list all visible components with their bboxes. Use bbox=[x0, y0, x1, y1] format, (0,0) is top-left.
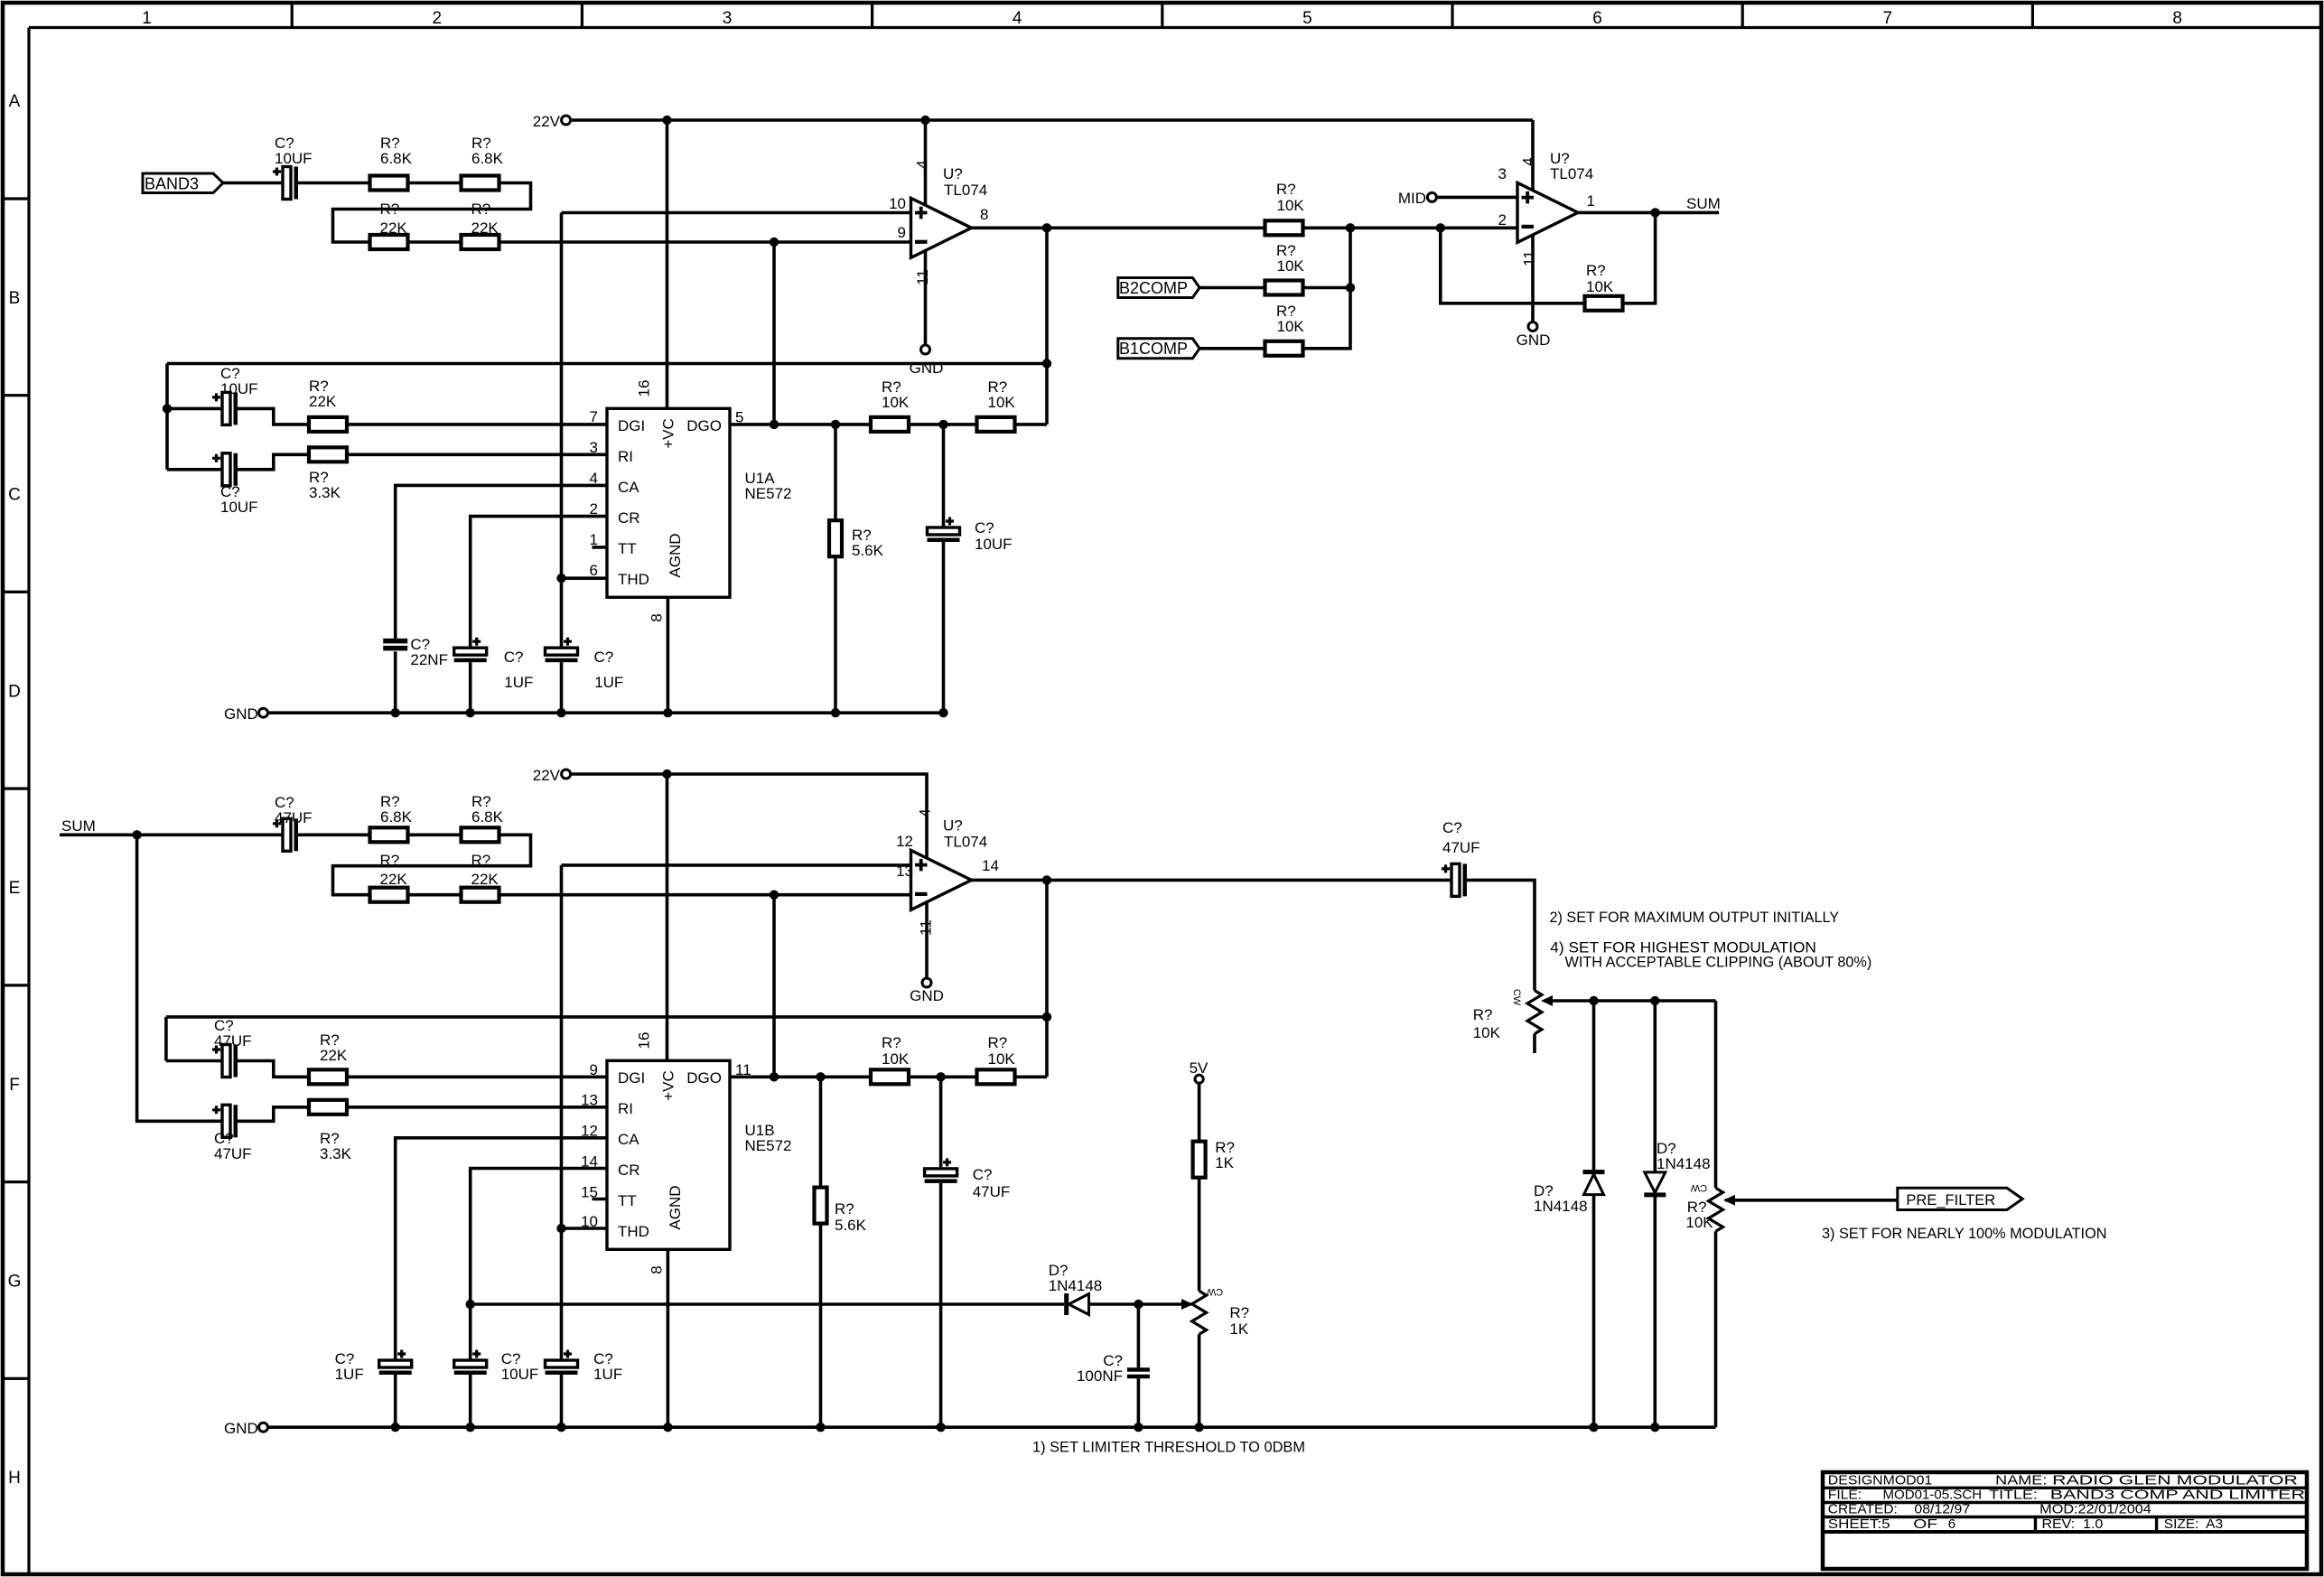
wire 10UF cap bottom to ground rail bbox=[942, 542, 946, 713]
resistor R? 22K bottom first bbox=[370, 888, 408, 902]
wire 47UF decouple bottom to ground rail bbox=[939, 1183, 943, 1427]
wire 47UF decouple top bbox=[939, 1077, 943, 1169]
svg-text:6: 6 bbox=[1592, 9, 1602, 28]
wire C 10UF to bottom ground rail bbox=[469, 1375, 472, 1427]
junction ground threshold pot bbox=[1194, 1423, 1203, 1432]
svg-text:22V: 22V bbox=[533, 113, 561, 130]
svg-text:E: E bbox=[9, 879, 21, 898]
svg-text:NE572: NE572 bbox=[745, 485, 792, 502]
svg-text:7: 7 bbox=[590, 408, 598, 425]
svg-text:MOD:22/01/2004: MOD:22/01/2004 bbox=[2039, 1502, 2151, 1517]
svg-text:16: 16 bbox=[636, 1032, 653, 1050]
svg-text:6: 6 bbox=[1948, 1516, 1955, 1532]
svg-text:47UF: 47UF bbox=[1442, 839, 1480, 856]
svg-text:MID: MID bbox=[1398, 190, 1426, 207]
potentiometer R? 1K threshold bbox=[1192, 1291, 1207, 1334]
power terminal 22V bottom bbox=[562, 770, 571, 779]
svg-text:10K: 10K bbox=[988, 1050, 1016, 1068]
svg-text:R?: R? bbox=[1276, 181, 1296, 198]
capacitor C? 1UF bottom first bbox=[379, 1360, 412, 1367]
resistor R? 10K DGO bottom second feedback bbox=[977, 1069, 1015, 1084]
svg-text:DESIGNMOD01: DESIGNMOD01 bbox=[1828, 1473, 1933, 1488]
svg-text:1N4148: 1N4148 bbox=[1049, 1277, 1103, 1294]
wire between 6.8K resistors bbox=[408, 182, 462, 185]
svg-text:4: 4 bbox=[1013, 9, 1022, 28]
svg-text:13: 13 bbox=[581, 1092, 598, 1109]
wire R 22K to DGI pin 9 bbox=[347, 1076, 607, 1079]
svg-text:THD: THD bbox=[618, 571, 649, 588]
wire C 22NF to ground rail bbox=[394, 651, 397, 713]
svg-text:TL074: TL074 bbox=[944, 182, 987, 199]
svg-text:RADIO GLEN MODULATOR: RADIO GLEN MODULATOR bbox=[2052, 1473, 2298, 1488]
svg-text:22K: 22K bbox=[320, 1047, 348, 1064]
border column ticks bbox=[291, 2, 294, 28]
svg-text:GND: GND bbox=[224, 705, 258, 723]
svg-text:10K: 10K bbox=[882, 1050, 910, 1068]
svg-text:6.8K: 6.8K bbox=[471, 150, 504, 167]
capacitor C? 47UF upper left bbox=[222, 1045, 230, 1078]
junction 22V at op-amp1 pin 4 bbox=[920, 116, 929, 125]
svg-text:GND: GND bbox=[1517, 331, 1551, 349]
svg-text:3.3K: 3.3K bbox=[320, 1145, 352, 1162]
wire CA pin 12 to C 1UF bottom bbox=[396, 1138, 607, 1360]
wire feedback op-amp2 bbox=[1441, 228, 1585, 303]
wire CR pin 2 to C 1UF first bbox=[471, 517, 607, 649]
svg-text:CW: CW bbox=[1511, 989, 1522, 1006]
resistor R? 3.3K RI bbox=[309, 447, 347, 462]
junction DGO bottom 47UF bbox=[936, 1072, 945, 1081]
resistor R? 6.8K bottom first bbox=[370, 827, 408, 842]
wire R 3.3K to RI pin 13 bbox=[347, 1106, 607, 1109]
wire diode2 top bbox=[1654, 1001, 1657, 1172]
junction ground 5.6K bbox=[831, 708, 840, 717]
svg-text:9: 9 bbox=[590, 1061, 598, 1078]
resistor R? 22K DGI bottom bbox=[309, 1069, 347, 1084]
svg-text:8: 8 bbox=[2172, 9, 2182, 28]
wire 22K row to op-amp inverting input pin 9 bbox=[499, 240, 911, 244]
svg-text:FILE:: FILE: bbox=[1828, 1488, 1862, 1503]
svg-text:10UF: 10UF bbox=[220, 499, 258, 516]
svg-text:5.6K: 5.6K bbox=[835, 1217, 867, 1234]
wire 5.6K bottom top bbox=[819, 1077, 823, 1187]
wire horizontal y1126 bbox=[166, 1015, 1047, 1019]
capacitor C? 47UF decouple bbox=[925, 1169, 957, 1176]
svg-text:47UF: 47UF bbox=[214, 1145, 252, 1162]
capacitor C? 22NF bbox=[383, 639, 407, 644]
junction DGO 10UF bbox=[938, 420, 947, 429]
svg-text:CR: CR bbox=[618, 1162, 640, 1179]
wire between bottom 6.8K resistors bbox=[408, 833, 462, 836]
svg-text:CW: CW bbox=[1690, 1182, 1707, 1193]
wire C 1UF to bottom ground rail bbox=[394, 1375, 397, 1427]
wire C 1UF to ground rail bbox=[469, 662, 472, 713]
svg-text:U?: U? bbox=[943, 165, 963, 182]
svg-text:R?: R? bbox=[835, 1200, 854, 1218]
wire 5.6K bottom to ground rail bbox=[819, 1224, 823, 1428]
junction threshold 100NF bbox=[1134, 1300, 1143, 1309]
wire op-amp1 pin11 to GND bbox=[924, 251, 928, 346]
svg-text:10K: 10K bbox=[1277, 318, 1305, 335]
svg-text:1UF: 1UF bbox=[504, 674, 533, 691]
svg-text:6.8K: 6.8K bbox=[471, 808, 504, 826]
svg-text:DGO: DGO bbox=[686, 417, 722, 434]
svg-text:47UF: 47UF bbox=[214, 1032, 252, 1050]
svg-text:10UF: 10UF bbox=[975, 536, 1013, 553]
wire 6.8K loop to 22K row bbox=[333, 183, 531, 243]
svg-text:3: 3 bbox=[1498, 165, 1507, 182]
capacitor C? 10UF input bbox=[283, 167, 291, 200]
wire C 47UF to R 22K DGI bottom bbox=[238, 1061, 310, 1078]
junction sum node feedback op-amp2 bbox=[1436, 223, 1445, 232]
IC U1B NE572 box bbox=[607, 1060, 730, 1249]
svg-text:TL074: TL074 bbox=[944, 834, 987, 851]
svg-text:TT: TT bbox=[618, 1192, 637, 1209]
svg-text:R?: R? bbox=[1229, 1304, 1249, 1321]
wire vertical output node bottom x1159 bbox=[1045, 880, 1049, 1077]
svg-text:5V: 5V bbox=[1190, 1059, 1209, 1077]
wire to C 10UF upper bbox=[167, 407, 222, 411]
svg-text:08/12/97: 08/12/97 bbox=[1914, 1502, 1970, 1517]
svg-text:REV: 1.0: REV: 1.0 bbox=[2042, 1516, 2104, 1532]
wire +VC pin16 to 22V rail bottom bbox=[666, 774, 669, 1060]
wire C 47UF to 6.8K bbox=[298, 833, 370, 836]
resistor R? 6.8K first bbox=[370, 176, 408, 191]
svg-text:BAND3 COMP AND LIMITER: BAND3 COMP AND LIMITER bbox=[2050, 1488, 2305, 1503]
svg-text:CR: CR bbox=[618, 509, 640, 527]
svg-text:22K: 22K bbox=[380, 871, 408, 888]
svg-text:16: 16 bbox=[636, 380, 653, 397]
svg-text:C: C bbox=[8, 486, 21, 505]
junction ground diode1 bbox=[1589, 1423, 1598, 1432]
border row ticks bbox=[2, 197, 29, 200]
svg-text:PRE_FILTER: PRE_FILTER bbox=[1906, 1191, 1995, 1208]
svg-text:1N4148: 1N4148 bbox=[1657, 1155, 1711, 1172]
svg-text:9: 9 bbox=[898, 224, 906, 241]
wire +VC pin16 to 22V rail bbox=[666, 120, 669, 408]
ground terminal top rail bbox=[259, 708, 268, 717]
junction DGO 5.6K bbox=[831, 420, 840, 429]
wire vertical junction to DGO bottom bbox=[772, 895, 776, 1078]
svg-text:47UF: 47UF bbox=[973, 1183, 1011, 1200]
wire vertical output node x1159 bbox=[1045, 228, 1049, 425]
wire ground rail bottom bbox=[268, 1425, 1716, 1429]
wire output cap to level pot bbox=[1467, 880, 1535, 990]
diode D? 1N4148 threshold bbox=[1064, 1293, 1069, 1315]
svg-text:DGO: DGO bbox=[686, 1069, 722, 1087]
resistor R? 5.6K bottom bbox=[815, 1188, 827, 1224]
wire 22V rail into op-amp2 pin 4 bbox=[1531, 120, 1535, 190]
junction THD bbox=[556, 574, 565, 583]
svg-text:GND: GND bbox=[910, 987, 944, 1004]
wire CR junction to C 10UF bottom bbox=[469, 1304, 472, 1360]
wire 100NF bottom to ground rail bbox=[1137, 1378, 1141, 1427]
svg-text:2: 2 bbox=[433, 9, 443, 28]
svg-text:22K: 22K bbox=[309, 393, 337, 410]
svg-text:22K: 22K bbox=[471, 219, 499, 237]
svg-text:7: 7 bbox=[1883, 9, 1893, 28]
svg-text:3: 3 bbox=[723, 9, 733, 28]
junction at y402 bbox=[1042, 359, 1051, 368]
svg-text:SHEET:5: SHEET:5 bbox=[1828, 1516, 1890, 1532]
potentiometer R? 10K modulation bbox=[1709, 1188, 1723, 1231]
wire 100NF top bbox=[1137, 1304, 1141, 1367]
wire level pot wiper bbox=[1546, 999, 1716, 1003]
power terminal 5V bbox=[1195, 1075, 1203, 1083]
svg-text:A: A bbox=[9, 92, 21, 111]
svg-text:10K: 10K bbox=[1685, 1214, 1713, 1231]
wire between bottom 22K resistors bbox=[408, 893, 462, 897]
svg-text:R?: R? bbox=[1586, 262, 1606, 279]
wire 5V to R 1K bbox=[1198, 1083, 1201, 1141]
capacitor C? 1UF bottom second bbox=[546, 1360, 578, 1367]
svg-text:10: 10 bbox=[889, 195, 906, 212]
svg-text:R?: R? bbox=[471, 201, 491, 218]
resistor R? 6.8K bottom second bbox=[462, 827, 499, 842]
junction left caps bbox=[163, 404, 172, 413]
capacitor C? 10UF lower left bbox=[222, 453, 230, 486]
svg-text:14: 14 bbox=[982, 857, 999, 874]
junction bottom ground 1UF second bbox=[556, 1423, 565, 1432]
junction wiper diode1 bbox=[1589, 996, 1598, 1005]
wire to C 10UF lower bbox=[167, 468, 222, 471]
svg-text:100NF: 100NF bbox=[1077, 1367, 1123, 1385]
junction ground AGND bbox=[663, 708, 672, 717]
diode D? 1N4148 second bbox=[1645, 1172, 1666, 1193]
wire DGO pin 5 line bbox=[730, 423, 1047, 426]
svg-text:DGI: DGI bbox=[618, 417, 645, 434]
wire THD to C 1UF bottom second bbox=[560, 1228, 564, 1360]
junction op-amp3 output feedback bbox=[1042, 875, 1051, 884]
resistor R? 10K DGO second feedback bbox=[977, 417, 1015, 432]
wire THD to C 1UF second bbox=[560, 578, 564, 648]
wire THD pin 6 bbox=[562, 576, 608, 580]
wire op-amp3 pin 11 to GND bbox=[925, 902, 929, 978]
wire THD pin 10 bbox=[562, 1227, 608, 1230]
svg-text:C?: C? bbox=[1442, 819, 1462, 836]
junction SUM to RI cap bbox=[132, 830, 141, 839]
svg-text:B2COMP: B2COMP bbox=[1119, 279, 1188, 297]
wire vertical junction to DGO line bbox=[772, 242, 776, 425]
wire diode1 top bbox=[1592, 1001, 1596, 1170]
wire threshold diode to pot bbox=[1089, 1302, 1192, 1306]
wire DGO pin 11 line bbox=[730, 1076, 1047, 1079]
svg-text:10UF: 10UF bbox=[220, 380, 258, 397]
svg-text:8: 8 bbox=[648, 613, 665, 621]
wire C to R 3.3K RI bbox=[238, 454, 310, 470]
wire B2COMP to resistor bbox=[1199, 286, 1265, 290]
junction THD bottom bbox=[556, 1224, 565, 1233]
junction DGO feedback vertical bbox=[770, 420, 779, 429]
wire C to R 22K DGI bbox=[238, 408, 310, 425]
wire MID to op-amp2 pin 3 bbox=[1436, 196, 1517, 200]
svg-text:1) SET LIMITER THRESHOLD TO 0D: 1) SET LIMITER THRESHOLD TO 0DBM bbox=[1032, 1440, 1305, 1456]
ground terminal op-amp2 bbox=[1528, 322, 1537, 331]
wire op-amp non-inverting input pin 10 bbox=[562, 211, 911, 215]
wire R 3.3K to RI pin 3 bbox=[347, 453, 607, 456]
power terminal 22V top bbox=[562, 116, 571, 125]
wire B2COMP resistor to sum vertical bbox=[1303, 286, 1351, 290]
svg-text:MOD01-05.SCH: MOD01-05.SCH bbox=[1883, 1488, 1983, 1503]
ground terminal op-amp3 bbox=[922, 978, 931, 987]
wire C to R 6.8K bbox=[298, 182, 370, 185]
resistor R? 10K feedback op-amp2 bbox=[1585, 296, 1623, 311]
svg-text:DGI: DGI bbox=[618, 1069, 645, 1087]
resistor R? 10K B2COMP bbox=[1265, 281, 1303, 295]
svg-text:C?: C? bbox=[504, 649, 524, 666]
svg-text:NAME:: NAME: bbox=[1995, 1473, 2047, 1488]
svg-text:B1COMP: B1COMP bbox=[1119, 340, 1188, 358]
svg-text:8: 8 bbox=[980, 206, 988, 223]
wire bottom 6.8K loop to 22K row bbox=[333, 835, 531, 894]
wire bottom 22K row to op-amp3 inverting pin 13 bbox=[499, 893, 911, 897]
junction on inverting input bbox=[770, 238, 779, 247]
junction bottom ground 10UF bbox=[466, 1423, 475, 1432]
svg-text:3: 3 bbox=[590, 439, 598, 456]
op-amp U1 TL074 first bbox=[911, 198, 972, 257]
resistor R? 22K bottom second bbox=[462, 888, 499, 902]
svg-text:BAND3: BAND3 bbox=[145, 175, 199, 193]
svg-text:R?: R? bbox=[1473, 1006, 1493, 1023]
capacitor C? 10UF decouple bbox=[928, 527, 960, 535]
op-amp U2 TL074 summing bbox=[1517, 182, 1578, 242]
svg-text:13: 13 bbox=[896, 863, 913, 880]
wire to C 47UF upper bbox=[166, 1059, 222, 1063]
capacitor C? 10UF bottom bbox=[454, 1360, 487, 1367]
junction ground 10UF bbox=[938, 708, 947, 717]
junction ground 1UF second bbox=[556, 708, 565, 717]
svg-text:8: 8 bbox=[648, 1265, 665, 1274]
wire wiper down to mod pot bbox=[1714, 1001, 1718, 1188]
wire B1COMP to resistor bbox=[1199, 347, 1265, 350]
wire 5.6K bottom to ground rail bbox=[834, 556, 837, 713]
wire 10UF cap top bbox=[942, 425, 946, 527]
svg-text:10K: 10K bbox=[988, 394, 1016, 411]
capacitor C? 47UF lower left bbox=[222, 1105, 230, 1137]
wire vertical left caps x185 bbox=[165, 364, 169, 470]
svg-text:THD: THD bbox=[618, 1223, 649, 1240]
wire diode2 bottom to ground rail bbox=[1654, 1195, 1657, 1427]
svg-text:SIZE: A3: SIZE: A3 bbox=[2164, 1516, 2223, 1532]
svg-text:D: D bbox=[8, 682, 21, 701]
svg-text:B: B bbox=[9, 289, 21, 308]
wire diode1 bottom to ground rail bbox=[1592, 1195, 1596, 1428]
svg-text:CW: CW bbox=[1206, 1286, 1223, 1297]
junction ground 100NF bbox=[1134, 1423, 1143, 1432]
svg-text:C?: C? bbox=[973, 1166, 993, 1183]
IC U1A NE572 box bbox=[607, 408, 730, 597]
svg-text:NE572: NE572 bbox=[745, 1137, 792, 1154]
svg-text:11: 11 bbox=[914, 269, 931, 285]
wire R 22K to DGI pin 7 bbox=[347, 423, 607, 426]
wire op-amp1 output bbox=[972, 227, 1265, 230]
svg-text:22V: 22V bbox=[533, 767, 561, 784]
svg-text:CA: CA bbox=[618, 479, 639, 496]
resistor R? 10K sum from op-amp1 bbox=[1265, 220, 1303, 235]
svg-text:CREATED:: CREATED: bbox=[1828, 1502, 1898, 1517]
svg-text:F: F bbox=[9, 1076, 20, 1095]
svg-text:AGND: AGND bbox=[667, 533, 684, 577]
junction ground 22NF bbox=[391, 708, 400, 717]
wire op-amp3 output bbox=[972, 879, 1452, 882]
resistor R? 10K DGO first bbox=[871, 417, 909, 432]
wire BAND3 to C input bbox=[223, 182, 283, 185]
svg-text:WITH ACCEPTABLE CLIPPING (ABOU: WITH ACCEPTABLE CLIPPING (ABOUT 80%) bbox=[1565, 955, 1872, 971]
wire ground rail top bbox=[268, 711, 944, 714]
wire 5.6K top bbox=[834, 425, 837, 520]
junction DGO bottom 5.6K bbox=[816, 1072, 825, 1081]
wire SUM junction down to C 47UF lower bbox=[137, 835, 222, 1121]
junction bottom ground 1UF first bbox=[391, 1423, 400, 1432]
junction output to summing resistor bbox=[1346, 223, 1355, 232]
svg-text:+VC: +VC bbox=[659, 1070, 677, 1101]
svg-text:10UF: 10UF bbox=[501, 1366, 539, 1383]
wire op-amp2 pin 11 to GND bbox=[1531, 236, 1535, 322]
svg-text:6: 6 bbox=[590, 562, 598, 579]
svg-text:+VC: +VC bbox=[659, 418, 677, 449]
port B2COMP bbox=[1118, 278, 1199, 298]
svg-text:6.8K: 6.8K bbox=[380, 808, 413, 826]
wire limiter threshold line bbox=[471, 1302, 1064, 1306]
resistor R? 3.3K RI bottom bbox=[309, 1100, 347, 1115]
svg-text:22K: 22K bbox=[380, 219, 408, 237]
wire B1COMP resistor to sum vertical bbox=[1303, 228, 1351, 348]
svg-text:1K: 1K bbox=[1229, 1320, 1248, 1338]
svg-text:2) SET FOR MAXIMUM OUTPUT INIT: 2) SET FOR MAXIMUM OUTPUT INITIALLY bbox=[1550, 910, 1840, 926]
port B1COMP bbox=[1118, 339, 1199, 359]
svg-text:47UF: 47UF bbox=[275, 809, 313, 826]
svg-text:SUM: SUM bbox=[1686, 195, 1721, 212]
resistor R? 6.8K second bbox=[462, 176, 499, 191]
svg-text:10K: 10K bbox=[1277, 257, 1305, 275]
title block frame bbox=[1823, 1472, 2307, 1569]
junction 22V at +VC bbox=[662, 116, 671, 125]
svg-text:C?: C? bbox=[975, 519, 994, 537]
potentiometer R? 10K level bbox=[1527, 991, 1542, 1034]
svg-text:10K: 10K bbox=[1277, 197, 1305, 214]
wire op-amp3 non-inverting pin 12 bbox=[562, 863, 911, 867]
svg-text:R?: R? bbox=[471, 852, 491, 869]
op-amp U3 TL074 limiter bbox=[911, 850, 972, 910]
resistor R? 1K pullup bbox=[1193, 1142, 1206, 1178]
svg-text:OF: OF bbox=[1913, 1516, 1937, 1532]
wire 22V rail bottom bbox=[571, 774, 927, 858]
wire mod pot bottom to ground rail bbox=[1714, 1231, 1718, 1427]
svg-text:10K: 10K bbox=[882, 394, 910, 411]
wire C 1UF second to bottom ground rail bbox=[560, 1375, 564, 1427]
resistor R? 10K B1COMP bbox=[1265, 341, 1303, 356]
svg-text:22NF: 22NF bbox=[410, 651, 448, 668]
svg-text:22K: 22K bbox=[471, 871, 499, 888]
svg-text:1UF: 1UF bbox=[594, 674, 623, 691]
svg-text:TITLE:: TITLE: bbox=[1989, 1488, 2038, 1503]
resistor R? 22K first bbox=[370, 235, 408, 249]
svg-text:RI: RI bbox=[618, 448, 633, 465]
svg-text:5: 5 bbox=[1302, 9, 1312, 28]
svg-text:1: 1 bbox=[1587, 192, 1595, 210]
capacitor C? 47UF input bbox=[283, 818, 291, 851]
wire R 1K to threshold pot bbox=[1198, 1178, 1201, 1292]
pin stub TT pin 15 bbox=[593, 1198, 608, 1201]
wire horizontal y402 caps node to output node bbox=[167, 362, 1047, 366]
port MID terminal bbox=[1427, 192, 1436, 201]
junction at y1126 bbox=[1042, 1012, 1051, 1022]
wire AGND pin8 to ground rail bbox=[667, 597, 670, 713]
capacitor C? 47UF output coupling bbox=[1451, 863, 1460, 896]
wire CA pin 4 to C 22NF bbox=[396, 485, 607, 639]
wire C 1UF second to ground rail bbox=[560, 662, 564, 713]
wire vertical left cap DGI x184 bbox=[164, 1017, 168, 1061]
svg-text:RI: RI bbox=[618, 1100, 633, 1117]
